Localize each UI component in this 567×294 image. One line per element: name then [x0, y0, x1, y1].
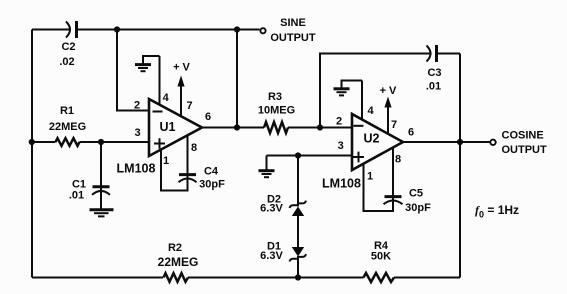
- svg-text:6.3V: 6.3V: [260, 203, 283, 215]
- svg-text:OUTPUT: OUTPUT: [502, 144, 548, 156]
- svg-text:8: 8: [395, 154, 401, 166]
- svg-text:30pF: 30pF: [199, 179, 225, 191]
- svg-text:R3: R3: [268, 91, 282, 103]
- svg-text:22MEG: 22MEG: [49, 121, 86, 133]
- svg-text:R2: R2: [168, 242, 182, 254]
- svg-text:U2: U2: [364, 132, 380, 146]
- svg-text:U1: U1: [160, 120, 176, 134]
- svg-text:+ V: + V: [173, 62, 190, 74]
- svg-text:8: 8: [191, 142, 197, 154]
- svg-text:R1: R1: [60, 105, 74, 117]
- svg-text:.01: .01: [426, 81, 441, 93]
- svg-text:+ V: + V: [380, 85, 397, 97]
- svg-text:C4: C4: [204, 166, 219, 178]
- svg-text:2: 2: [134, 100, 140, 112]
- svg-text:OUTPUT: OUTPUT: [270, 32, 316, 44]
- svg-text:6: 6: [408, 127, 414, 139]
- svg-text:SINE: SINE: [280, 17, 306, 29]
- svg-text:6.3V: 6.3V: [260, 250, 283, 262]
- svg-text:LM108: LM108: [117, 162, 156, 176]
- svg-text:1: 1: [163, 155, 169, 167]
- svg-text:50K: 50K: [371, 251, 391, 263]
- svg-text:4: 4: [367, 105, 374, 117]
- svg-text:.02: .02: [59, 56, 74, 68]
- svg-text:3: 3: [134, 127, 140, 139]
- svg-text:f0 = 1Hz: f0 = 1Hz: [475, 203, 519, 220]
- svg-text:30pF: 30pF: [405, 202, 431, 214]
- svg-text:22MEG: 22MEG: [158, 255, 199, 269]
- svg-text:C2: C2: [61, 41, 75, 53]
- svg-text:C3: C3: [427, 67, 441, 79]
- svg-text:7: 7: [186, 100, 192, 112]
- svg-text:C5: C5: [409, 188, 423, 200]
- svg-text:6: 6: [205, 111, 211, 123]
- svg-text:LM108: LM108: [322, 177, 361, 191]
- svg-text:3: 3: [338, 140, 344, 152]
- svg-text:7: 7: [391, 119, 397, 131]
- svg-text:10MEG: 10MEG: [258, 105, 295, 117]
- svg-text:1: 1: [367, 171, 373, 183]
- svg-text:4: 4: [163, 92, 170, 104]
- svg-text:COSINE: COSINE: [502, 130, 544, 142]
- svg-text:2: 2: [336, 116, 342, 128]
- svg-text:.01: .01: [69, 190, 84, 202]
